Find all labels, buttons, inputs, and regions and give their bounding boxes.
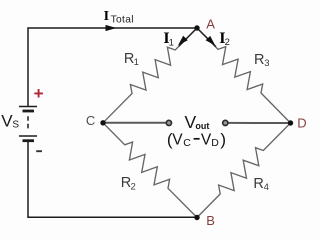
svg-text:3: 3 [264, 58, 269, 69]
battery VS bottom cell long plate [19, 135, 37, 137]
wire: node C to left output terminal [103, 122, 166, 124]
node C junction dot [100, 120, 105, 125]
svg-text:C: C [183, 137, 191, 149]
arrow: I2 on arm A-D [206, 36, 216, 46]
svg-text:V: V [1, 112, 13, 131]
wire: node A to I1 arrowhead (dark segment) [179, 28, 197, 46]
wire: right output terminal to node D [229, 122, 291, 124]
battery minus sign [36, 150, 42, 152]
left Vout terminal [166, 120, 171, 125]
svg-text:D: D [211, 137, 219, 149]
wire: bridge arm A to D (with resistor R3 zigzag) [197, 28, 291, 123]
svg-text:C: C [86, 113, 95, 128]
right Vout terminal [223, 120, 228, 125]
battery dashed link (cells omitted) [27, 116, 29, 129]
svg-text:R: R [253, 176, 263, 192]
svg-text:out: out [195, 121, 209, 131]
svg-text:Total: Total [111, 15, 134, 26]
wire: bottom horizontal from battery - to node B [28, 142, 197, 218]
wire: node A to I2 arrowhead (dark segment) [197, 28, 216, 47]
svg-text:): ) [220, 130, 226, 149]
svg-text:2: 2 [225, 37, 230, 48]
node A junction dot [194, 25, 199, 30]
svg-text:V: V [172, 131, 183, 148]
svg-text:S: S [12, 120, 19, 131]
svg-text:4: 4 [264, 182, 269, 193]
node D junction dot [288, 120, 293, 125]
svg-text:1: 1 [134, 57, 139, 68]
svg-text:R: R [254, 52, 264, 68]
svg-text:D: D [297, 116, 306, 131]
svg-text:V: V [201, 131, 212, 148]
battery VS top cell long plate (+) [19, 106, 37, 108]
svg-text:1: 1 [169, 38, 174, 49]
wire: bridge arm A to C (with resistor R1 zigzag) [103, 28, 197, 123]
wire: top horizontal from battery + to node A [28, 28, 197, 106]
wire: bridge arm C to B (with resistor R2 zigzag) [103, 123, 197, 218]
svg-text:I: I [104, 9, 109, 24]
svg-text:+: + [34, 84, 44, 103]
node B junction dot [194, 215, 199, 220]
arrow: I1 on arm A-C [178, 36, 188, 46]
svg-text:A: A [206, 16, 215, 31]
svg-text:2: 2 [131, 182, 136, 193]
arrow: I Total on top wire [106, 25, 117, 31]
wire: bridge arm B to D (with resistor R4 zigzag) [197, 123, 291, 218]
battery VS bottom cell short thick plate (-) [23, 139, 35, 142]
battery VS top cell short thick plate [23, 110, 35, 113]
svg-text:B: B [206, 213, 215, 228]
